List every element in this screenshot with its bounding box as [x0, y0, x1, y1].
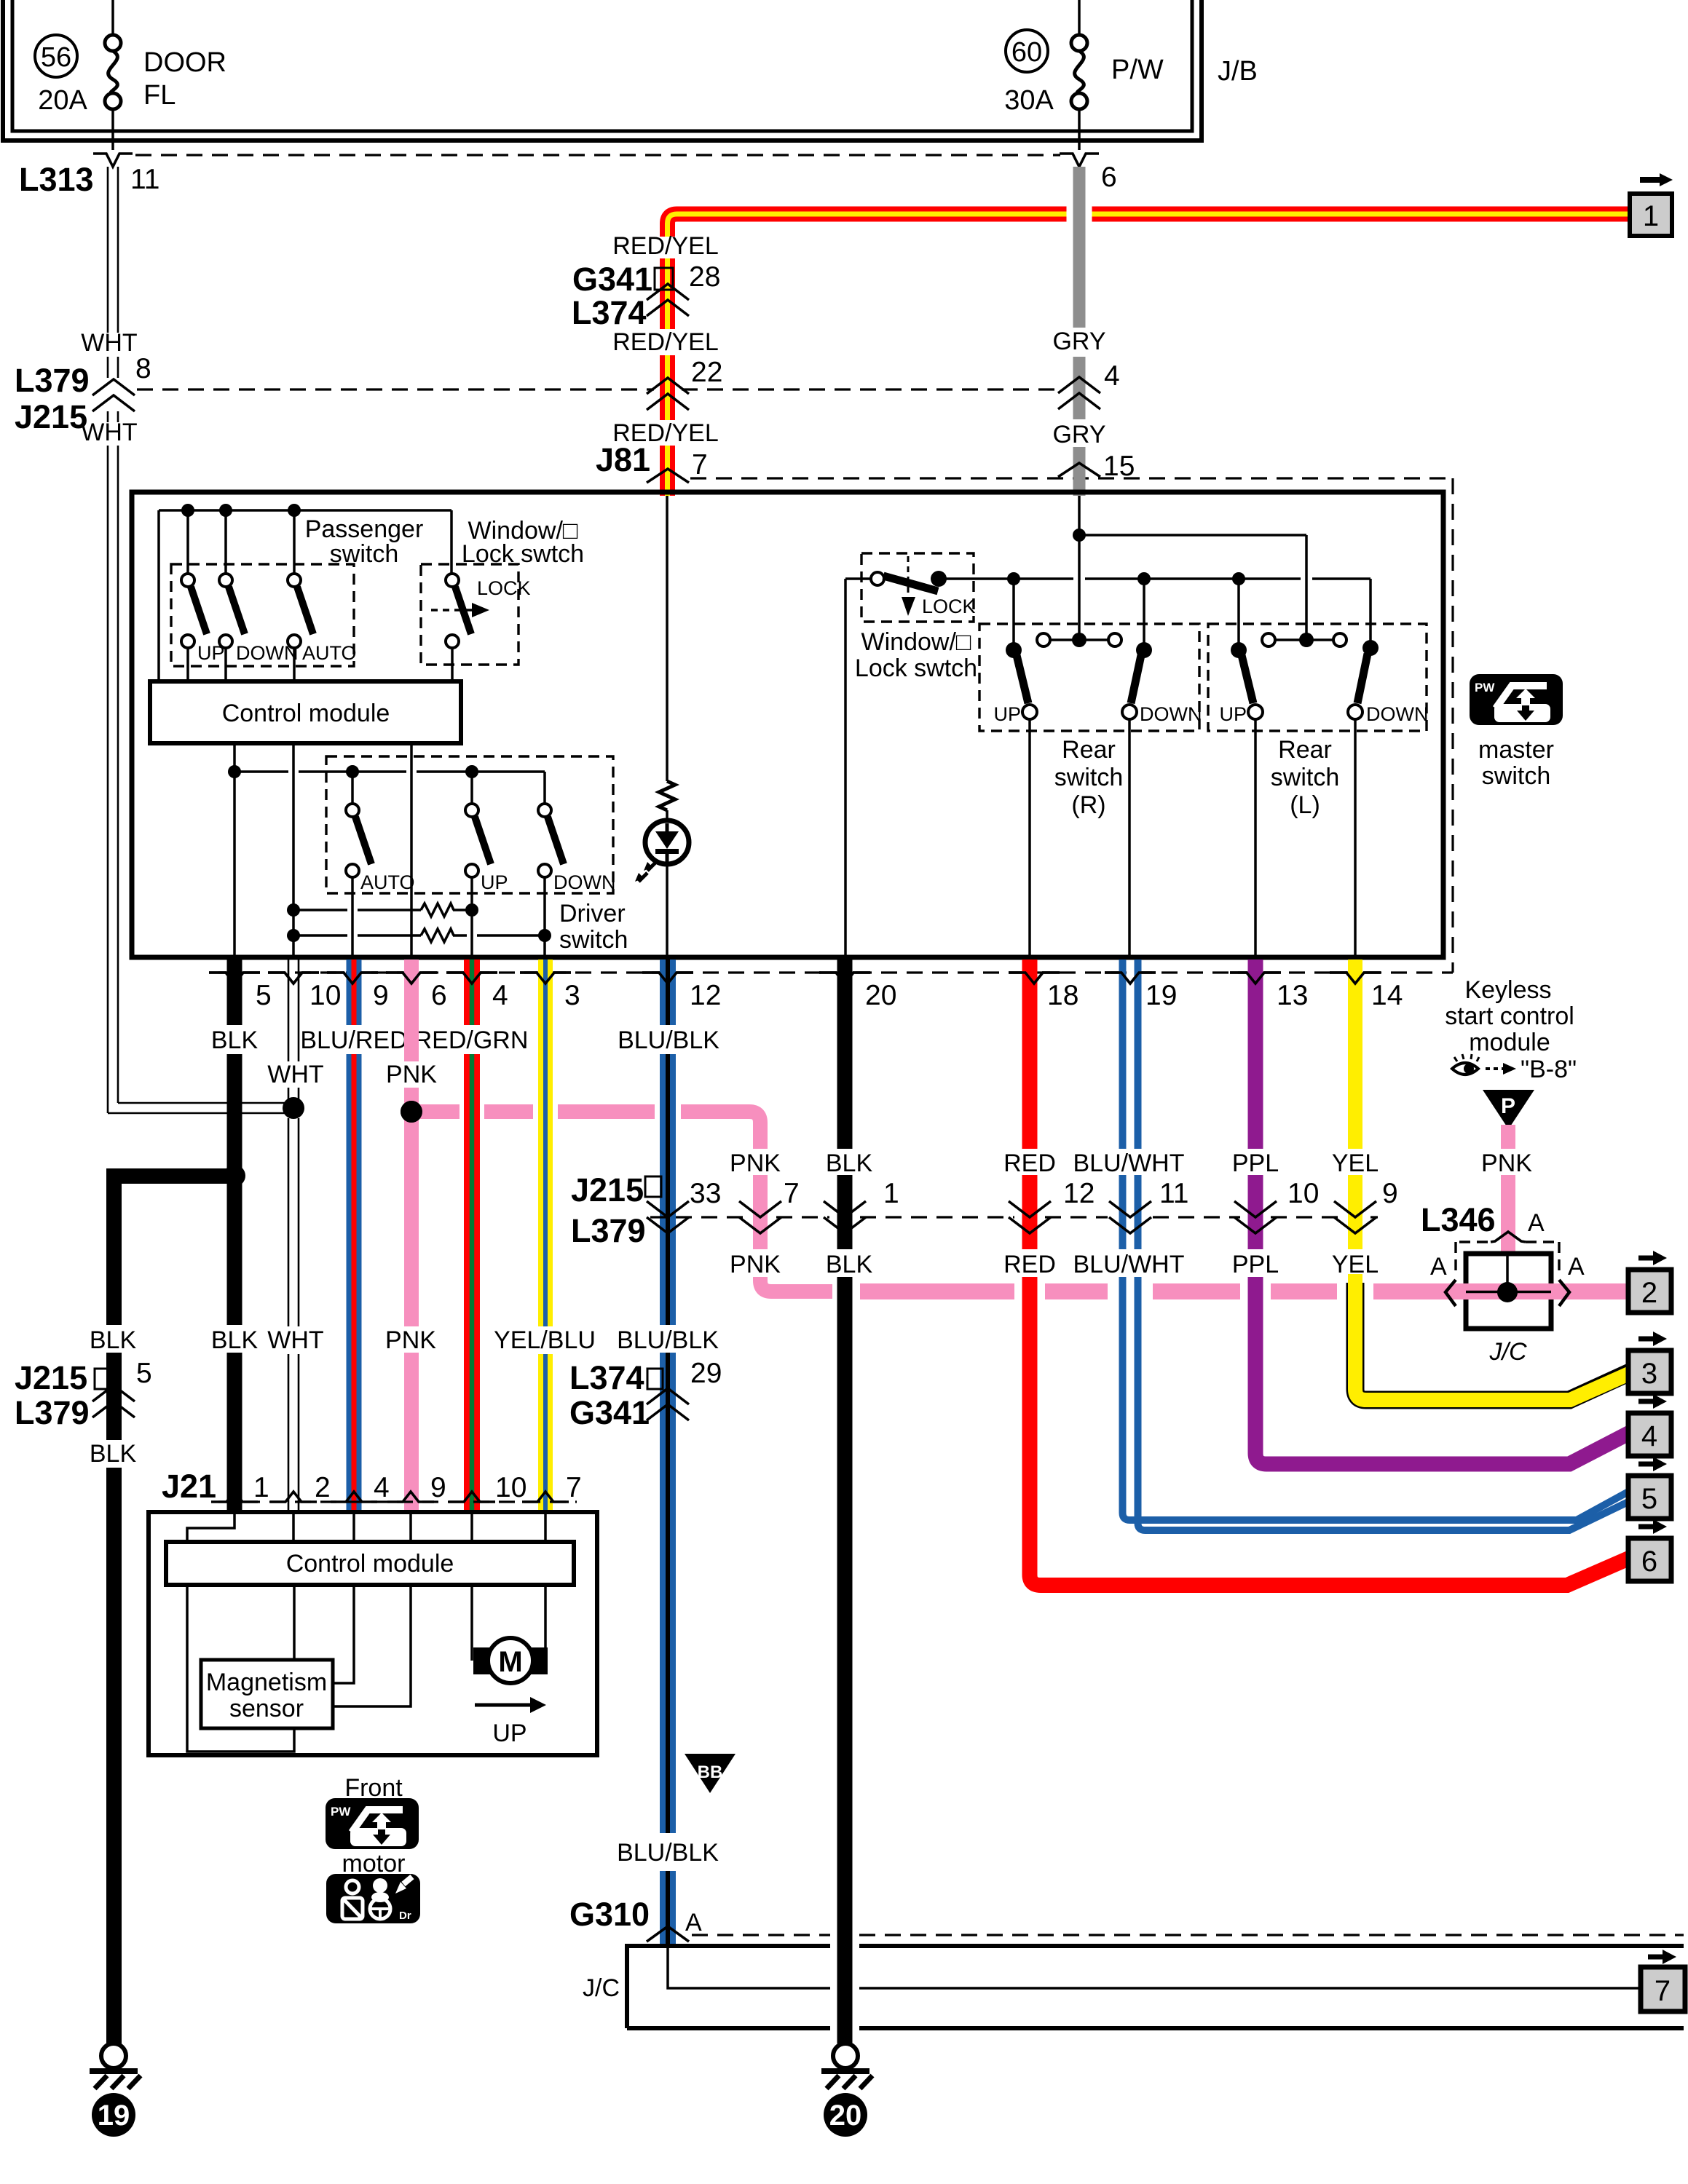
wire BLU/WHT pin 19	[1123, 960, 1630, 1530]
svg-text:module: module	[1469, 1029, 1550, 1056]
connector pin 15 on GRY	[1058, 463, 1100, 477]
dashed harness line J81/15 row	[690, 477, 1453, 479]
wire WHT lower segment	[108, 411, 288, 1113]
connector L313 pin 11	[93, 154, 133, 167]
svg-text:BLU/RED: BLU/RED	[300, 1026, 407, 1054]
control module header box	[166, 1542, 574, 1585]
svg-text:Keyless: Keyless	[1464, 976, 1551, 1004]
rear switch (L) UP contact	[1231, 642, 1247, 658]
master row chevrons overlay	[209, 973, 260, 984]
svg-text:Passenger: Passenger	[305, 515, 424, 543]
svg-text:12: 12	[690, 980, 721, 1011]
J21 pin 9 chevron	[387, 1492, 434, 1502]
svg-text:switch: switch	[330, 540, 398, 568]
svg-text:9: 9	[373, 980, 389, 1011]
svg-text:1: 1	[253, 1472, 269, 1503]
svg-text:4: 4	[1641, 1420, 1657, 1452]
connector 6 arrow	[1638, 1519, 1667, 1534]
junction connector J/C L346 box	[1466, 1254, 1551, 1329]
svg-text:A: A	[1528, 1209, 1545, 1237]
svg-text:L379: L379	[15, 362, 90, 399]
svg-text:RED/GRN: RED/GRN	[414, 1026, 529, 1054]
svg-text:AUTO: AUTO	[302, 642, 357, 664]
wire YEL pin 14	[1348, 960, 1362, 1249]
junction dot PNK overlay	[401, 1101, 422, 1123]
svg-text:LOCK: LOCK	[922, 596, 976, 617]
svg-text:Lock swtch: Lock swtch	[855, 654, 977, 682]
svg-text:UP: UP	[993, 703, 1021, 725]
svg-text:6: 6	[1101, 162, 1117, 193]
wire RED pin 18	[1030, 960, 1630, 1586]
svg-text:A: A	[685, 1909, 702, 1936]
svg-text:4: 4	[374, 1472, 390, 1503]
svg-text:"B-8": "B-8"	[1521, 1056, 1577, 1083]
wire inside bottom J/C	[668, 1946, 1641, 1988]
svg-text:switch: switch	[1054, 764, 1123, 791]
white gap for GRY over RED/YEL	[1067, 202, 1092, 227]
svg-text:18: 18	[1047, 980, 1078, 1011]
svg-text:6: 6	[431, 980, 447, 1011]
svg-text:28: 28	[689, 261, 720, 293]
svg-text:56: 56	[41, 42, 71, 73]
window/lock switch 2 contact	[871, 572, 884, 585]
J21 pin 2 chevron	[270, 1492, 317, 1502]
LED branch wire	[666, 496, 669, 781]
svg-text:9: 9	[430, 1472, 446, 1503]
svg-text:5: 5	[256, 980, 272, 1011]
svg-text:10: 10	[1287, 1178, 1319, 1209]
wire RED/YEL vertical segments	[660, 258, 675, 496]
wire PNK from keyless module	[1501, 1125, 1515, 1254]
svg-text:33: 33	[690, 1178, 721, 1209]
svg-text:PNK: PNK	[730, 1150, 781, 1177]
wire BLK pin 5	[227, 960, 242, 1512]
svg-text:DOOR: DOOR	[143, 47, 226, 78]
svg-text:UP: UP	[481, 871, 508, 893]
svg-text:7: 7	[692, 449, 708, 480]
connector 7	[1641, 1967, 1685, 2011]
pin 5 chevron	[209, 973, 260, 984]
svg-text:9: 9	[1382, 1178, 1398, 1209]
svg-text:motor: motor	[342, 1850, 406, 1878]
svg-text:PNK: PNK	[730, 1251, 781, 1278]
svg-text:BLK: BLK	[90, 1326, 137, 1354]
wire PNK pin 6	[404, 960, 419, 1512]
passenger switch DOWN contact	[224, 510, 227, 574]
window/lock switch 1 dashed box	[421, 564, 518, 665]
passenger switch UP contact	[186, 510, 189, 574]
svg-text:P: P	[1501, 1094, 1515, 1118]
svg-text:PNK: PNK	[386, 1061, 437, 1088]
reference triangle BB	[685, 1754, 735, 1793]
junction connector J/C bottom box	[627, 1946, 1684, 2028]
master switch connector row dashed line	[218, 971, 1453, 973]
rear switch (L) DOWN contact	[1362, 640, 1379, 656]
connector 1	[1630, 194, 1672, 236]
rear switch (R) common bar	[1050, 638, 1108, 641]
svg-text:Driver: Driver	[559, 900, 626, 927]
fuse 56 circled label	[35, 35, 77, 77]
wire PNK horizontal branch	[411, 1112, 760, 1249]
ground 20	[833, 2043, 858, 2068]
J21 pin 4 chevron	[331, 1492, 377, 1502]
pin 4 chevron	[446, 973, 497, 984]
svg-text:L374: L374	[572, 294, 647, 331]
connector pin 4 on GRY	[1058, 377, 1100, 393]
svg-text:J215: J215	[15, 398, 87, 435]
wire PNK corner down to main run	[760, 1277, 832, 1291]
svg-text:J/C: J/C	[1489, 1338, 1527, 1366]
internal pin wires	[187, 1512, 545, 1542]
wire YEL/BLU pin 3	[538, 960, 553, 1512]
svg-text:3: 3	[1641, 1358, 1657, 1390]
svg-text:4: 4	[492, 980, 508, 1011]
svg-text:YEL/BLU: YEL/BLU	[494, 1326, 596, 1354]
pin 12 chevron	[642, 973, 693, 984]
connector 7 arrow	[1648, 1950, 1676, 1964]
svg-text:14: 14	[1371, 980, 1403, 1011]
junction block J/B outer border	[3, 0, 1202, 141]
svg-text:UP: UP	[1219, 703, 1247, 725]
connector 4 arrow	[1638, 1394, 1667, 1409]
svg-text:1: 1	[883, 1178, 899, 1209]
svg-text:1: 1	[1643, 200, 1659, 232]
UP arrow	[475, 1704, 530, 1707]
pin 13 chevron	[1230, 973, 1281, 984]
master switch assembly dashed boundary	[1451, 478, 1454, 973]
wire RED/YEL horizontal to connector 1	[668, 214, 1630, 237]
driver switch DOWN contact	[543, 772, 546, 804]
svg-text:2: 2	[315, 1472, 331, 1503]
svg-text:PNK: PNK	[1481, 1150, 1532, 1177]
svg-text:BLK: BLK	[826, 1251, 873, 1278]
svg-text:BLU/BLK: BLU/BLK	[618, 1026, 719, 1054]
svg-text:BLU/BLK: BLU/BLK	[617, 1326, 719, 1354]
connector 2 arrow	[1638, 1251, 1667, 1265]
driver switch feed line	[234, 770, 545, 773]
driver position icon	[326, 1874, 420, 1923]
svg-text:DOWN: DOWN	[553, 871, 615, 893]
wire WHT segments to J21	[288, 960, 299, 1512]
J/C side chevrons A-A	[1446, 1280, 1456, 1306]
junction connector J/C L346 dashed outline	[1456, 1242, 1559, 1275]
svg-text:30A: 30A	[1004, 85, 1054, 116]
connector pin 22 on RED/YEL	[647, 378, 689, 394]
wire BLU/RED pin 9	[347, 960, 362, 1512]
node: passenger switch supply line	[159, 509, 451, 512]
svg-text:J21: J21	[162, 1468, 216, 1505]
svg-text:DOWN: DOWN	[1140, 703, 1202, 725]
svg-text:switch: switch	[1482, 762, 1550, 790]
wire PPL pin 13	[1255, 960, 1630, 1464]
svg-text:5: 5	[136, 1358, 152, 1389]
pin 19 chevron	[1105, 973, 1156, 984]
junction dot PNK	[401, 1101, 422, 1123]
svg-text:8: 8	[135, 353, 151, 384]
svg-text:(L): (L)	[1290, 791, 1320, 819]
passenger switch AUTO contact	[293, 510, 296, 574]
mid row pin 9 chevron	[1334, 1201, 1376, 1217]
svg-text:19: 19	[98, 2100, 130, 2132]
rear switch (R) UP contact	[1006, 642, 1022, 658]
svg-text:6: 6	[1641, 1546, 1657, 1578]
connector 4	[1628, 1413, 1671, 1456]
svg-text:WHT: WHT	[81, 329, 137, 357]
J21 pin 10 chevron	[449, 1492, 495, 1502]
svg-text:A: A	[1568, 1253, 1585, 1281]
svg-text:BB: BB	[698, 1762, 723, 1782]
svg-text:J/B: J/B	[1218, 56, 1258, 87]
svg-text:19: 19	[1145, 980, 1177, 1011]
eye reference icon	[1452, 1054, 1479, 1075]
pin 3 chevron	[520, 973, 571, 984]
pin 10 chevron	[268, 973, 319, 984]
mid row pin 10 chevron	[1234, 1201, 1277, 1217]
internal wires below header	[187, 1585, 545, 1752]
svg-text:Rear: Rear	[1278, 736, 1332, 764]
connector L379/J215 pin 8	[92, 379, 135, 395]
J21 pin 7 chevron	[522, 1492, 569, 1502]
driver switch dashed box	[326, 756, 613, 893]
wire BLK pin 20	[837, 960, 853, 2043]
svg-text:WHT: WHT	[81, 419, 137, 446]
svg-text:A: A	[1430, 1253, 1447, 1281]
svg-text:DOWN: DOWN	[1366, 703, 1428, 725]
svg-text:start control: start control	[1445, 1002, 1574, 1030]
fuse 60 P/W symbol	[1078, 0, 1081, 35]
wire BLU/BLK pin 12	[660, 960, 676, 1946]
window/lock switch 2 dashed box	[861, 553, 974, 622]
svg-text:master: master	[1478, 736, 1554, 764]
mid row pin 12 chevron	[1009, 1201, 1051, 1217]
driver switch resistor line 2	[287, 929, 300, 942]
svg-text:15: 15	[1103, 451, 1135, 482]
fuse 60 circled label	[1006, 30, 1048, 72]
wire GRY vertical	[1073, 167, 1086, 496]
svg-text:BLU/WHT: BLU/WHT	[1073, 1150, 1185, 1177]
rear switch (R) dashed box	[979, 624, 1199, 731]
svg-text:Magnetism: Magnetism	[206, 1669, 327, 1696]
rear switch (R) DOWN contact	[1136, 642, 1152, 658]
svg-text:11: 11	[130, 164, 160, 195]
wire BLK pin20 inside box	[845, 577, 871, 580]
svg-text:BLU/BLK: BLU/BLK	[617, 1839, 719, 1867]
svg-text:13: 13	[1277, 980, 1308, 1011]
dashed harness line L379 row	[137, 388, 654, 390]
svg-text:20A: 20A	[38, 85, 87, 116]
wire PNK through J/C	[860, 1283, 1628, 1299]
rear switch (L) common bar	[1275, 638, 1333, 641]
front PW motor control module box	[149, 1512, 597, 1755]
GRY feed line inside box	[1078, 496, 1081, 640]
svg-text:BLK: BLK	[826, 1150, 873, 1177]
svg-text:L313: L313	[19, 161, 94, 198]
svg-text:RED: RED	[1003, 1150, 1056, 1177]
mid row pin 7 chevron	[739, 1201, 781, 1217]
connector J215/L379 mid row dashed line	[650, 1216, 1378, 1218]
svg-text:GRY: GRY	[1052, 421, 1105, 448]
svg-text:G341: G341	[572, 261, 652, 298]
master switch icon	[1470, 674, 1563, 725]
pin 18 chevron	[1009, 973, 1060, 984]
LED indicator	[645, 820, 689, 864]
svg-text:5: 5	[1641, 1483, 1657, 1515]
svg-text:L346: L346	[1421, 1201, 1496, 1238]
svg-text:11: 11	[1159, 1178, 1189, 1209]
lock switch output line	[946, 579, 1370, 642]
svg-text:LOCK: LOCK	[477, 577, 531, 599]
motor M	[473, 1647, 492, 1674]
driver switch AUTO contact	[346, 765, 359, 778]
ground 19	[101, 2043, 126, 2068]
svg-text:BLK: BLK	[211, 1326, 259, 1354]
svg-text:AUTO: AUTO	[360, 871, 415, 893]
svg-text:J215: J215	[571, 1171, 644, 1208]
svg-text:J81: J81	[596, 441, 650, 478]
master switch solid box	[132, 492, 1443, 957]
svg-text:UP: UP	[492, 1720, 526, 1747]
dashed line G310 row	[692, 1934, 1684, 1936]
svg-text:Window/□: Window/□	[861, 628, 971, 656]
svg-text:2: 2	[1641, 1277, 1657, 1309]
svg-text:Lock swtch: Lock swtch	[462, 540, 584, 568]
reference triangle P	[1483, 1090, 1534, 1129]
mid row pin 1 chevron	[824, 1201, 866, 1217]
svg-text:G310: G310	[569, 1896, 650, 1933]
LED light arrows	[639, 862, 656, 882]
svg-text:7: 7	[566, 1472, 582, 1503]
svg-text:P/W: P/W	[1111, 55, 1164, 85]
wire WHT from fuse 56 (upper segment)	[108, 167, 118, 378]
pin 14 chevron	[1330, 973, 1381, 984]
connector 5 arrow	[1638, 1457, 1667, 1471]
control module box (master switch)	[150, 681, 461, 743]
window/lock switch 1 contact	[450, 510, 453, 574]
svg-text:4: 4	[1104, 360, 1120, 392]
svg-text:WHT: WHT	[267, 1326, 323, 1354]
wire RED/GRN pin 4	[464, 960, 480, 1512]
svg-text:RED/YEL: RED/YEL	[612, 232, 719, 260]
driver switch feed wires	[233, 743, 236, 957]
svg-text:(R): (R)	[1071, 791, 1105, 819]
connector pin 6 below fuse 60	[1060, 154, 1099, 167]
svg-text:PNK: PNK	[385, 1326, 436, 1354]
connector 1 arrow	[1640, 173, 1673, 186]
svg-text:20: 20	[829, 2100, 862, 2132]
svg-text:10: 10	[309, 980, 341, 1011]
svg-text:10: 10	[495, 1472, 526, 1503]
svg-text:Rear: Rear	[1062, 736, 1116, 764]
svg-text:YEL: YEL	[1332, 1150, 1379, 1177]
svg-text:L379: L379	[571, 1212, 646, 1249]
svg-text:PPL: PPL	[1232, 1150, 1279, 1177]
svg-text:YEL: YEL	[1332, 1251, 1379, 1278]
passenger switch dashed box	[171, 564, 354, 666]
connector 2	[1628, 1270, 1671, 1313]
svg-text:WHT: WHT	[267, 1061, 323, 1088]
mid row pin 11 chevron	[1109, 1201, 1151, 1217]
pin 9 chevron	[327, 973, 378, 984]
svg-text:Control module: Control module	[286, 1550, 454, 1578]
svg-text:20: 20	[865, 980, 896, 1011]
mid row pin 33 chevron	[647, 1201, 689, 1217]
svg-text:7: 7	[784, 1178, 800, 1209]
svg-text:L374: L374	[569, 1359, 644, 1396]
svg-text:29: 29	[690, 1358, 722, 1389]
wire BLK branch to left	[106, 1168, 234, 1184]
fuse 56 DOOR FL symbol	[111, 0, 114, 35]
connector 3 arrow	[1638, 1332, 1667, 1346]
svg-text:7: 7	[1655, 1975, 1671, 2007]
svg-text:PPL: PPL	[1232, 1251, 1279, 1278]
svg-text:RED/YEL: RED/YEL	[612, 328, 719, 356]
rear switch (L) dashed box	[1208, 624, 1427, 731]
svg-text:GRY: GRY	[1052, 328, 1105, 355]
svg-text:G341: G341	[569, 1394, 650, 1431]
pin 20 chevron	[819, 973, 870, 984]
svg-text:60: 60	[1011, 37, 1042, 68]
svg-text:12: 12	[1063, 1178, 1095, 1209]
magnetism sensor box	[201, 1660, 333, 1728]
J21 pin 1 chevron	[211, 1492, 258, 1502]
svg-text:sensor: sensor	[229, 1695, 304, 1722]
LED resistor	[659, 781, 675, 810]
pin 6 chevron	[386, 973, 437, 984]
svg-text:22: 22	[691, 357, 722, 388]
driver switch resistor line 1	[287, 903, 300, 917]
svg-text:switch: switch	[559, 926, 628, 954]
svg-text:Front: Front	[344, 1774, 403, 1802]
svg-text:switch: switch	[1271, 764, 1339, 791]
dashed harness line L313 row	[135, 154, 1060, 156]
front power window motor icon	[326, 1798, 419, 1849]
junction block J/B inner border	[12, 0, 1192, 131]
connector 3	[1628, 1350, 1671, 1393]
svg-text:J215: J215	[15, 1359, 87, 1396]
svg-text:BLU/WHT: BLU/WHT	[1073, 1251, 1185, 1278]
svg-text:FL: FL	[143, 80, 175, 111]
svg-text:3: 3	[564, 980, 580, 1011]
svg-text:BLK: BLK	[90, 1440, 137, 1468]
driver switch UP contact	[465, 765, 478, 778]
junction dot WHT	[283, 1097, 304, 1119]
svg-text:J/C: J/C	[583, 1974, 620, 2002]
connector 6	[1628, 1538, 1671, 1581]
svg-text:RED: RED	[1003, 1251, 1056, 1278]
connector 5	[1628, 1476, 1671, 1519]
svg-text:L379: L379	[15, 1394, 90, 1431]
svg-text:Control module: Control module	[222, 700, 390, 727]
svg-text:M: M	[498, 1646, 522, 1678]
svg-text:BLK: BLK	[211, 1026, 259, 1054]
